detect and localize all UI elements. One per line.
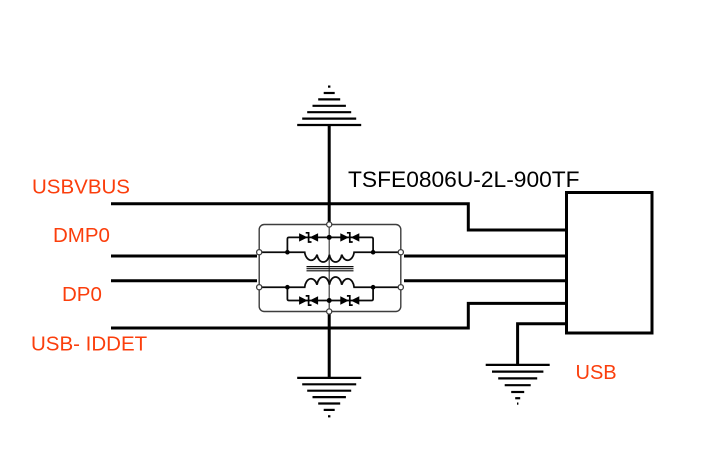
pin 6 (bottom gnd) [327, 309, 332, 314]
svg-text:USB: USB [576, 362, 617, 384]
junction dot lower-center [327, 298, 332, 303]
svg-text:USBVBUS: USBVBUS [32, 175, 130, 198]
lower TVS branch wire [287, 287, 373, 300]
svg-text:DP0: DP0 [62, 283, 102, 306]
wire USBVBUS [111, 204, 567, 230]
svg-text:USB- IDDET: USB- IDDET [31, 333, 148, 356]
USB connector U2 body [567, 193, 653, 334]
junction dot lower-right [371, 285, 376, 290]
wire DP0 left [111, 279, 257, 282]
wire DMP0 left [111, 255, 257, 258]
junction dot upper-left [285, 250, 290, 255]
wire DMP0 right [404, 255, 567, 258]
wire USB- IDDET [111, 303, 567, 328]
ground bottom center [297, 378, 361, 416]
TVS diode pair D3 (lower left) [299, 296, 318, 305]
pin 1 (left upper) [257, 250, 262, 255]
TVS diode pair D1 (upper left) [299, 233, 318, 242]
junction dot lower-left [285, 285, 290, 290]
TVS diode pair D2 (upper right) [340, 233, 359, 242]
filter U1 body outline [259, 225, 401, 312]
junction dot upper-right [371, 250, 376, 255]
pin 3 (right upper) [398, 250, 403, 255]
filter center line [328, 227, 330, 310]
TVS diode pair D4 (lower right) [340, 296, 359, 305]
upper winding L1 [262, 252, 398, 262]
svg-text:TSFE0806U-2L-900TF: TSFE0806U-2L-900TF [348, 167, 580, 192]
lower winding L2 [262, 277, 398, 287]
junction dot upper-center [327, 235, 332, 240]
pin 2 (left lower) [257, 285, 262, 290]
pin 5 (top gnd) [327, 222, 332, 227]
pin 4 (right lower) [398, 285, 403, 290]
wire USB shield to ground [518, 324, 567, 365]
upper TVS branch wire [287, 237, 373, 252]
wire DP0 right [404, 279, 567, 282]
wire top ground to filter [328, 126, 331, 222]
svg-text:DMP0: DMP0 [53, 224, 110, 247]
core lines [307, 267, 354, 271]
ground right (USB shield) [486, 365, 550, 404]
ground top (chassis, pointing up) [297, 87, 361, 125]
wire filter to bottom ground [328, 314, 331, 378]
